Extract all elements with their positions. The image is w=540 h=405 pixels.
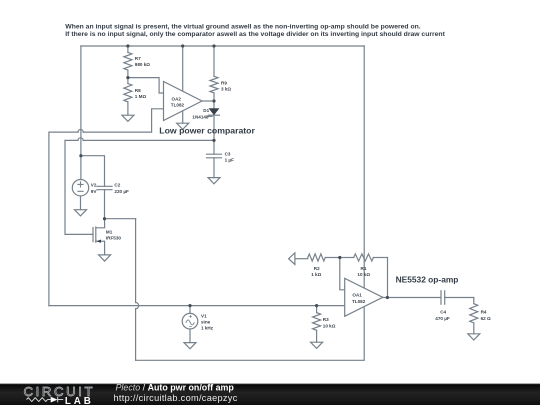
svg-text:C2: C2 — [114, 183, 120, 188]
svg-text:TL082: TL082 — [171, 103, 185, 108]
svg-text:R2: R2 — [314, 266, 320, 271]
svg-text:1N4148: 1N4148 — [192, 114, 209, 119]
svg-text:1 kHz: 1 kHz — [201, 326, 214, 331]
svg-text:10 kΩ: 10 kΩ — [357, 272, 370, 277]
svg-text:3 kΩ: 3 kΩ — [221, 87, 231, 92]
svg-text:C4: C4 — [440, 310, 446, 315]
svg-text:TL082: TL082 — [352, 299, 366, 304]
svg-text:V1: V1 — [201, 313, 207, 318]
svg-text:R7: R7 — [135, 56, 141, 61]
svg-text:1 µF: 1 µF — [225, 158, 234, 163]
svg-text:R1: R1 — [361, 266, 367, 271]
svg-text:C3: C3 — [225, 151, 231, 156]
svg-text:sine: sine — [201, 320, 211, 325]
svg-text:IRF530: IRF530 — [106, 236, 122, 241]
svg-text:D1: D1 — [203, 108, 209, 113]
svg-text:M1: M1 — [106, 229, 113, 234]
svg-text:R4: R4 — [481, 310, 487, 315]
svg-text:R8: R8 — [135, 88, 141, 93]
svg-text:R9: R9 — [221, 80, 227, 85]
svg-text:62 Ω: 62 Ω — [481, 316, 491, 321]
svg-text:10 kΩ: 10 kΩ — [323, 323, 336, 328]
svg-text:OA1: OA1 — [352, 293, 362, 298]
svg-text:980 kΩ: 980 kΩ — [135, 62, 150, 67]
svg-text:470 µF: 470 µF — [435, 316, 450, 321]
svg-text:V2: V2 — [91, 183, 97, 188]
svg-text:If there is no input signal, o: If there is no input signal, only the co… — [65, 31, 445, 38]
svg-text:1 MΩ: 1 MΩ — [135, 94, 147, 99]
svg-text:LAB: LAB — [65, 396, 94, 405]
svg-text:NE5532 op-amp: NE5532 op-amp — [396, 275, 459, 285]
svg-text:9V: 9V — [91, 189, 98, 194]
svg-text:Low power comparator: Low power comparator — [159, 125, 255, 135]
svg-text:http://circuitlab.com/caepzyc: http://circuitlab.com/caepzyc — [114, 393, 238, 403]
svg-text:When an input signal is presen: When an input signal is present, the vir… — [65, 23, 420, 30]
svg-text:R3: R3 — [323, 317, 329, 322]
svg-text:OA2: OA2 — [172, 96, 182, 101]
svg-text:1 kΩ: 1 kΩ — [311, 272, 321, 277]
svg-text:Plecto / Auto pwr on/off amp: Plecto / Auto pwr on/off amp — [116, 383, 235, 393]
svg-text:220 µF: 220 µF — [114, 189, 129, 194]
